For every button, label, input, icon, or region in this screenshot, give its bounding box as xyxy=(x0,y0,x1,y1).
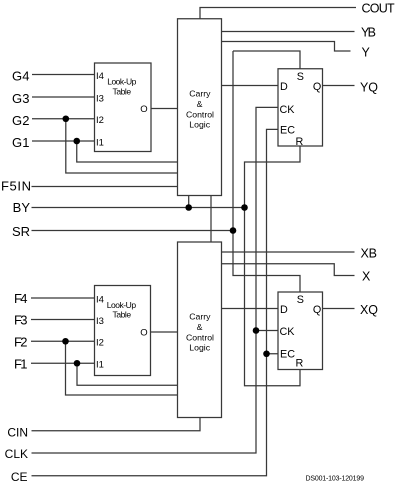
junction dot G1 xyxy=(73,138,80,145)
svg-text:Carry: Carry xyxy=(189,312,211,322)
junction dot EC2 xyxy=(263,350,270,357)
svg-text:G4: G4 xyxy=(12,69,30,84)
svg-text:I2: I2 xyxy=(96,115,104,126)
carry U5 (bottom Carry & Control Logic) box xyxy=(178,242,222,418)
wire YQ from U3 Q xyxy=(323,85,355,87)
svg-text:CLK: CLK xyxy=(5,447,28,461)
wire XB from U5 xyxy=(222,251,355,253)
svg-text:S: S xyxy=(297,71,304,83)
svg-text:F1: F1 xyxy=(14,356,28,371)
wire F3 to U4 I3 xyxy=(31,319,95,321)
svg-text:Look-Up: Look-Up xyxy=(107,300,137,310)
svg-text:XB: XB xyxy=(361,246,378,260)
wire carry chain U5 to U2 xyxy=(210,196,212,243)
svg-text:YB: YB xyxy=(361,26,376,40)
svg-text:Q: Q xyxy=(313,304,321,316)
svg-text:XQ: XQ xyxy=(360,303,378,317)
junction dot BY-carry xyxy=(185,204,192,211)
wire F2 branch to U5 xyxy=(66,341,178,395)
svg-text:CIN: CIN xyxy=(7,425,28,439)
junction dot F2 xyxy=(62,338,69,345)
svg-text:Carry: Carry xyxy=(189,89,211,99)
wire U3 R to BY trunk xyxy=(245,146,301,386)
svg-text:O: O xyxy=(140,328,147,339)
wire SR vertical trunk xyxy=(233,51,300,292)
wire F5IN to U2 xyxy=(32,186,178,188)
svg-text:F4: F4 xyxy=(14,291,28,306)
wire Y from U2 xyxy=(222,42,351,52)
wire F2 to U4 I2 xyxy=(31,340,95,342)
wire YB from U2 xyxy=(222,31,355,33)
wire G1 to U1 I1 xyxy=(32,140,95,142)
svg-text:G1: G1 xyxy=(12,135,30,150)
svg-text:F2: F2 xyxy=(14,334,28,349)
svg-text:S: S xyxy=(297,294,304,306)
wire U3 EC to CE trunk xyxy=(32,129,279,475)
wire F1 branch to U5 xyxy=(77,363,178,385)
svg-text:Logic: Logic xyxy=(189,343,210,353)
svg-text:Q: Q xyxy=(313,81,321,93)
svg-text:Y: Y xyxy=(362,46,371,60)
svg-text:YQ: YQ xyxy=(360,80,378,94)
svg-text:Table: Table xyxy=(113,310,132,320)
wire XQ from U6 Q xyxy=(323,308,355,310)
carry U2 (top Carry & Control Logic) box xyxy=(178,19,222,196)
svg-text:SR: SR xyxy=(12,224,30,239)
svg-text:&: & xyxy=(197,99,203,109)
wire U4 O to U5 xyxy=(151,331,178,333)
wire U3 CK to CLK trunk xyxy=(32,107,279,453)
flip-flop U3 (top D flip-flop) box xyxy=(278,69,323,146)
junction dot G2 xyxy=(63,115,70,122)
wire U5 to U6 D xyxy=(222,308,279,310)
flip-flop U6 (bottom D flip-flop) box xyxy=(278,292,323,370)
wire U1 O to U2 xyxy=(151,108,178,110)
svg-text:I3: I3 xyxy=(96,93,104,104)
wire U6 CK branch xyxy=(256,330,278,332)
junction dot SR xyxy=(230,227,237,234)
wire G2 to U1 I2 xyxy=(32,118,95,120)
svg-text:DS001-103-120199: DS001-103-120199 xyxy=(306,475,365,482)
svg-text:D: D xyxy=(280,81,288,93)
wire SR xyxy=(32,230,234,232)
svg-text:Table: Table xyxy=(113,86,132,96)
svg-text:R: R xyxy=(295,357,303,369)
svg-text:Control: Control xyxy=(186,332,214,342)
svg-text:EC: EC xyxy=(280,349,295,361)
svg-text:BY: BY xyxy=(13,200,31,215)
svg-text:G2: G2 xyxy=(12,113,30,128)
wire BY branch to U2 xyxy=(188,196,190,208)
svg-text:CE: CE xyxy=(11,470,28,484)
svg-text:G3: G3 xyxy=(12,91,30,106)
junction dot F1 xyxy=(74,360,81,367)
wire COUT from U2 xyxy=(200,8,356,19)
wire G3 to U1 I3 xyxy=(32,96,95,98)
wire CIN to U5 xyxy=(32,418,201,431)
svg-text:X: X xyxy=(362,270,371,284)
svg-text:O: O xyxy=(140,104,147,115)
svg-text:D: D xyxy=(280,304,288,316)
junction dot BY-R xyxy=(241,204,248,211)
svg-text:R: R xyxy=(295,136,303,148)
wire U6 EC branch xyxy=(267,353,279,355)
wire BY xyxy=(32,207,245,209)
svg-text:&: & xyxy=(197,322,203,332)
wire F1 to U4 I1 xyxy=(31,362,95,364)
svg-text:I4: I4 xyxy=(96,294,104,305)
LUT U1 (top Look-Up Table) box xyxy=(95,63,152,152)
svg-text:COUT: COUT xyxy=(362,2,396,16)
svg-text:F5IN: F5IN xyxy=(1,178,31,193)
svg-text:Logic: Logic xyxy=(189,120,210,130)
svg-text:EC: EC xyxy=(280,125,295,137)
svg-text:I3: I3 xyxy=(96,316,104,327)
wire SR net vertical to U3 S and U6 S xyxy=(233,51,300,69)
wire X from U5 xyxy=(222,264,355,276)
svg-text:I1: I1 xyxy=(96,137,104,148)
wire G4 to U1 I4 xyxy=(32,74,95,76)
svg-text:I2: I2 xyxy=(96,338,104,349)
svg-text:Look-Up: Look-Up xyxy=(107,77,136,87)
svg-text:CK: CK xyxy=(280,104,296,116)
LUT U4 (bottom Look-Up Table) box xyxy=(95,286,151,376)
wire G1 branch to U2 xyxy=(77,141,178,162)
svg-text:CK: CK xyxy=(280,326,296,338)
svg-text:I4: I4 xyxy=(96,71,104,82)
wire G2 branch to U2 xyxy=(66,119,178,173)
junction dot CK2 xyxy=(253,327,260,334)
svg-text:I1: I1 xyxy=(96,360,104,371)
wire U2 to U3 D xyxy=(222,85,279,87)
wire F4 to U4 I4 xyxy=(31,297,95,299)
svg-text:F3: F3 xyxy=(14,313,28,328)
svg-text:Control: Control xyxy=(186,109,214,119)
